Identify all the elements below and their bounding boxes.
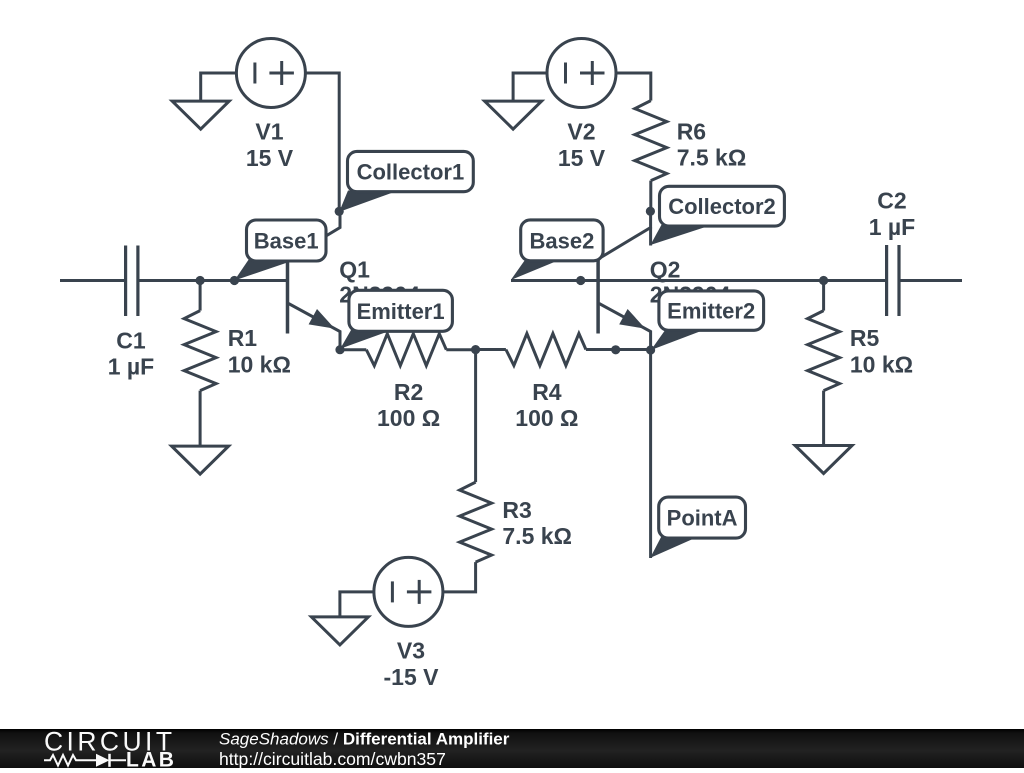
svg-text:100 Ω: 100 Ω: [515, 405, 578, 431]
net label Base2: [511, 220, 603, 280]
C1 value label: [108, 327, 154, 379]
node Emitter1: [335, 345, 344, 354]
Q1 name label: [339, 257, 420, 308]
V3 value label: [384, 638, 440, 690]
resistor R4: [476, 334, 651, 366]
footer url line: [219, 749, 446, 769]
node Base1: [230, 276, 239, 285]
R6 value label: [677, 118, 747, 170]
svg-text:-15 V: -15 V: [384, 664, 440, 690]
net label Collector1: [339, 151, 473, 212]
ground below R1: [172, 446, 229, 474]
svg-text:Collector2: Collector2: [668, 194, 776, 219]
ground below R5: [795, 446, 852, 474]
logo CIRCUIT text: [44, 727, 174, 757]
voltage source V1: [236, 39, 305, 108]
svg-text:7.5 kΩ: 7.5 kΩ: [677, 145, 747, 171]
svg-text:V1: V1: [255, 118, 283, 144]
svg-text:Emitter1: Emitter1: [357, 299, 445, 324]
svg-text:10 kΩ: 10 kΩ: [850, 351, 913, 377]
footer title line: [219, 730, 510, 749]
ground at V2: [485, 101, 542, 129]
R3 value label: [502, 497, 572, 549]
R5 value label: [850, 325, 913, 377]
svg-text:100 Ω: 100 Ω: [377, 405, 440, 431]
wire base2 net: tail tip through Q2 base to C2: [511, 279, 885, 282]
node Emitter2: [646, 345, 655, 354]
svg-text:15 V: 15 V: [246, 145, 294, 171]
node Collector2: [646, 207, 655, 216]
logo LAB text: [126, 749, 176, 772]
logo diode glyph: [96, 754, 126, 767]
R1 value label: [228, 325, 291, 377]
svg-text:Collector1: Collector1: [357, 160, 465, 185]
voltage source V3: [374, 557, 443, 626]
svg-text:1 µF: 1 µF: [869, 214, 915, 240]
resistor R6: [635, 101, 667, 212]
node Collector1: [335, 207, 344, 216]
V1 value label: [246, 118, 294, 171]
svg-text:PointA: PointA: [667, 506, 738, 531]
ground at V3: [311, 617, 368, 645]
svg-text:R4: R4: [532, 379, 562, 405]
svg-text:Emitter2: Emitter2: [667, 299, 755, 324]
resistor R2: [340, 334, 476, 366]
svg-text:R3: R3: [502, 497, 531, 523]
svg-text:SageShadows / Differential Amp: SageShadows / Differential Amplifier: [219, 730, 510, 749]
resistor R1: [184, 281, 216, 447]
transistor Q2: [598, 211, 651, 350]
node R2/R3/R4 junction: [471, 345, 480, 354]
wire V3 to ground: [340, 592, 374, 617]
Q2 name label: [650, 257, 731, 308]
resistor R3: [443, 350, 492, 592]
logo resistor glyph: [44, 755, 96, 766]
wire V2 to ground and to R6: [513, 73, 651, 101]
wire C2 to right output: [901, 279, 963, 282]
svg-text:1 µF: 1 µF: [108, 354, 154, 380]
svg-text:10 kΩ: 10 kΩ: [228, 351, 291, 377]
svg-text:C2: C2: [877, 187, 906, 213]
svg-text:R5: R5: [850, 325, 880, 351]
R2 value label: [377, 379, 440, 431]
resistor R5: [808, 281, 840, 446]
svg-text:C1: C1: [116, 327, 146, 353]
C2 value label: [869, 187, 915, 240]
svg-text:R1: R1: [228, 325, 258, 351]
net label Emitter1: [340, 290, 452, 349]
V2 value label: [558, 118, 606, 171]
svg-text:http://circuitlab.com/cwbn357: http://circuitlab.com/cwbn357: [219, 749, 446, 768]
wire Emitter2 down to PointA: [649, 350, 652, 558]
node R1 junction: [196, 276, 205, 285]
svg-text:15 V: 15 V: [558, 145, 606, 171]
R4 value label: [515, 379, 578, 431]
svg-text:Base1: Base1: [254, 229, 319, 254]
svg-text:7.5 kΩ: 7.5 kΩ: [502, 523, 572, 549]
node R4 right terminal: [611, 345, 620, 354]
wire C1 to Q1 base: [140, 279, 288, 282]
capacitor C2: [887, 245, 899, 316]
wire input left to C1: [60, 279, 124, 282]
transistor Q1: [288, 211, 341, 350]
capacitor C1: [126, 246, 138, 317]
svg-text:LAB: LAB: [126, 749, 176, 769]
svg-text:R2: R2: [394, 379, 423, 405]
ground at V1: [172, 101, 229, 129]
svg-text:V3: V3: [397, 638, 425, 664]
svg-text:R6: R6: [677, 118, 706, 144]
node on base2 wire: [576, 276, 585, 285]
svg-text:Q1: Q1: [339, 257, 370, 283]
net label Emitter2: [651, 291, 764, 350]
net label PointA: [650, 497, 745, 558]
svg-text:Q2: Q2: [650, 257, 681, 283]
svg-text:V2: V2: [567, 118, 595, 144]
node R5 junction: [819, 276, 828, 285]
voltage source V2: [547, 39, 616, 108]
wire V1 to ground and to collector: [201, 73, 340, 211]
net label Collector2: [650, 186, 784, 245]
net label Base1: [234, 220, 326, 281]
svg-text:Base2: Base2: [529, 228, 594, 253]
